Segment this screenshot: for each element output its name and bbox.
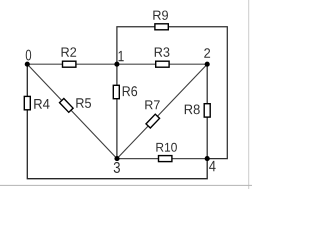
node label 4 <box>209 161 216 171</box>
wire node 0 to node 1 <box>27 63 117 65</box>
wire node 1 to node 2 <box>117 63 207 65</box>
wire node 1 down to node 3 <box>116 64 118 158</box>
wire diagonal node 0 to node 3 <box>27 64 117 158</box>
resistor R2 <box>63 61 76 67</box>
label R8 <box>185 104 200 114</box>
node 1 junction dot <box>114 62 119 67</box>
label R9 <box>153 10 168 19</box>
wire diagonal node 2 to node 3 <box>117 64 207 158</box>
node label 3 <box>114 162 120 173</box>
node label 1 <box>119 51 124 61</box>
label R10 <box>156 143 177 152</box>
label R7 <box>145 100 159 109</box>
resistor R8 <box>204 104 210 117</box>
node label 0 <box>26 50 31 61</box>
node label 2 <box>204 48 210 57</box>
canvas bottom border line <box>0 184 252 186</box>
resistor R6 <box>113 85 119 98</box>
label R5 <box>76 98 91 108</box>
resistor R3 <box>156 61 169 67</box>
label R3 <box>155 47 170 56</box>
canvas right border line <box>248 0 250 189</box>
resistor R10 <box>159 156 172 162</box>
resistor R4 <box>24 96 30 109</box>
node 4 junction dot <box>205 156 210 161</box>
wire node 2 down to node 4 <box>206 64 208 158</box>
label R6 <box>123 86 137 96</box>
node 3 junction dot <box>114 156 119 161</box>
wire top loop from node 1 up over R9 and down right side to node 4 row <box>117 27 227 159</box>
wire node 0 down left side and along bottom to node 4 <box>27 64 207 179</box>
node 0 junction dot <box>25 62 30 67</box>
label R4 <box>34 99 49 109</box>
resistor R7 <box>146 114 160 128</box>
node 2 junction dot <box>205 62 210 67</box>
label R2 <box>62 47 77 56</box>
wire node 3 to node 4 <box>117 158 207 160</box>
resistor R5 <box>60 98 74 112</box>
resistor R9 <box>155 24 168 30</box>
